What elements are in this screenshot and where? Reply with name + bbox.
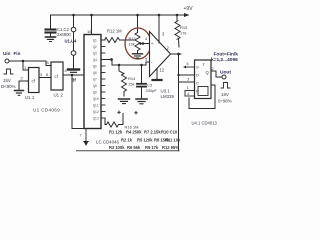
capacitor C1 C2 — [46, 15, 72, 37]
flip-flop U4.1 box — [195, 60, 214, 99]
node rail-ic — [90, 14, 93, 17]
svg-text:U1.1: U1.1 — [25, 95, 35, 100]
node output — [177, 53, 180, 56]
svg-text:R13: R13 — [129, 37, 136, 41]
svg-text:Q9: Q9 — [93, 91, 97, 95]
wire to FF pin D — [179, 74, 195, 76]
svg-text:R11 10k: R11 10k — [165, 138, 181, 143]
wire down to U1.1 pin1 — [23, 61, 29, 70]
wire rail to pot top — [137, 15, 139, 33]
pot wiper arrow — [138, 42, 143, 45]
wire opamp output — [171, 53, 182, 55]
inverter U1.2 — [46, 62, 68, 90]
resistor R16 oscillator — [105, 114, 139, 130]
svg-text:LM339: LM339 — [161, 94, 175, 99]
wire output to FF pins — [179, 54, 195, 151]
red highlight circle — [125, 28, 151, 59]
ground under R14 — [119, 99, 130, 104]
svg-text:D: D — [196, 73, 199, 78]
wire wiper to opamp plus — [143, 43, 150, 45]
label U1 CD4069 — [33, 108, 60, 113]
ground under C1C2 — [46, 37, 56, 42]
label U4.1 CD4013 — [192, 121, 218, 126]
table underline — [77, 150, 180, 152]
svg-text:15k: 15k — [128, 82, 134, 87]
svg-text:Q12: Q12 — [93, 110, 99, 114]
svg-text:R2 1k: R2 1k — [121, 138, 133, 143]
svg-text:0÷98%: 0÷98% — [218, 99, 232, 104]
node tap — [110, 58, 113, 61]
svg-text:Q8: Q8 — [93, 84, 97, 88]
inverter U1.1 — [21, 65, 44, 93]
svg-text:15V: 15V — [3, 78, 11, 83]
label U1.2 — [54, 93, 64, 98]
feedback wire Qbar to D — [189, 85, 215, 109]
svg-text:C: C — [196, 81, 199, 86]
ground under C3 — [136, 99, 147, 104]
parts table row3 — [109, 145, 179, 150]
svg-text:Q10: Q10 — [93, 97, 99, 101]
svg-text:330pF: 330pF — [146, 88, 158, 93]
svg-text:U4.1 CD4013: U4.1 CD4013 — [192, 121, 218, 126]
svg-text:Q1: Q1 — [93, 39, 97, 43]
counter IC U2 box — [84, 35, 101, 129]
svg-text:R15: R15 — [180, 25, 188, 30]
+9V supply arrow — [177, 6, 193, 17]
wire rail to counter pin 16 — [87, 15, 92, 35]
output terminal Uout — [220, 70, 231, 80]
svg-text:17k: 17k — [180, 31, 186, 36]
input terminal Uin Fin — [3, 51, 21, 63]
node clock-reset split — [71, 74, 74, 77]
svg-text:R14: R14 — [128, 76, 136, 81]
FF inner box — [198, 87, 208, 96]
wire U1.1 pin2 — [19, 81, 29, 90]
wire counter tap to minus bus — [101, 60, 150, 66]
power pins symbol U1,U4 — [65, 15, 78, 68]
wire to reset ground — [72, 75, 84, 129]
potentiometer R13 — [129, 33, 141, 54]
svg-text:3: 3 — [187, 78, 189, 82]
svg-text:+9V: +9V — [184, 6, 194, 12]
capacitor C3 — [137, 65, 157, 98]
node rail-opamp — [158, 14, 161, 17]
label R14 value — [128, 76, 136, 87]
svg-text:R12 95%: R12 95% — [162, 145, 179, 150]
node rail-cap — [72, 14, 75, 17]
svg-text:D<90%: D<90% — [1, 84, 16, 89]
svg-text:U1,U4: U1,U4 — [65, 39, 78, 44]
ground opamp — [153, 79, 162, 81]
svg-text:R9 17k: R9 17k — [145, 145, 159, 150]
svg-text:4: 4 — [187, 92, 189, 96]
node bus R14 — [118, 64, 121, 67]
svg-text:Uout: Uout — [220, 70, 231, 76]
FF pin S stub — [183, 62, 195, 68]
label U1.1 — [25, 95, 35, 100]
svg-text:10k: 10k — [129, 43, 135, 47]
node osc a — [118, 111, 121, 114]
node input split — [22, 60, 25, 63]
svg-text:C3: C3 — [147, 83, 153, 88]
svg-text:Q11: Q11 — [93, 104, 99, 108]
svg-text:R12 1M: R12 1M — [107, 29, 122, 34]
svg-text:Q3: Q3 — [93, 52, 97, 56]
svg-text:S: S — [196, 65, 199, 70]
parts table row1 — [109, 130, 178, 135]
resistor R12 horizontal — [101, 29, 134, 43]
wire U1.1 out to U1.2 in — [39, 77, 51, 79]
svg-text:Q4: Q4 — [93, 58, 97, 62]
svg-text:Q2: Q2 — [93, 45, 97, 49]
node FF d — [177, 74, 179, 76]
FF pin R stubs — [185, 86, 195, 96]
svg-text:U1 CD4069: U1 CD4069 — [33, 108, 60, 113]
node rail-pot — [136, 14, 139, 17]
svg-text:LC CD4046: LC CD4046 — [96, 140, 119, 145]
svg-text:R1 12k: R1 12k — [109, 130, 123, 135]
label Fout formula — [211, 52, 238, 64]
wire Q to output terminal — [211, 71, 222, 77]
wire U1.2 out to counter clock — [63, 71, 87, 83]
node wiper — [142, 42, 145, 45]
svg-text:Q13: Q13 — [93, 117, 99, 121]
svg-text:1: 1 — [187, 86, 189, 90]
resistor R15 pull-up — [175, 15, 188, 47]
input pulse glyph — [1, 69, 16, 89]
ground inside circle — [133, 54, 143, 58]
counter pin labels Q1-Q12 — [93, 39, 99, 121]
svg-text:12: 12 — [160, 68, 165, 73]
resistor R14 — [119, 65, 127, 96]
svg-text:U3.1: U3.1 — [161, 89, 171, 94]
ground under U1,U4 — [68, 70, 79, 73]
ground pin7 arrow — [80, 129, 89, 147]
wire input to gates — [9, 60, 51, 66]
counter pin stubs — [101, 40, 105, 118]
svg-text:Q7: Q7 — [93, 78, 97, 82]
svg-text:R7 2.15k: R7 2.15k — [144, 130, 161, 135]
svg-text:U1 2: U1 2 — [54, 93, 64, 98]
svg-text:R3 100k: R3 100k — [109, 145, 125, 150]
svg-text:R5 120k: R5 120k — [137, 138, 153, 143]
wire opamp gnd pin12 — [156, 69, 158, 80]
svg-text:R4 250k: R4 250k — [126, 130, 142, 135]
svg-text:R6 56k: R6 56k — [127, 145, 141, 150]
svg-text:Fout=Fin/k: Fout=Fin/k — [214, 52, 239, 58]
svg-text:Uin: Uin — [3, 51, 11, 56]
comparator U3.1 triangle — [145, 32, 171, 77]
svg-text:Q5: Q5 — [93, 65, 97, 69]
svg-text:+: + — [151, 41, 154, 46]
svg-text:18V: 18V — [221, 92, 229, 97]
svg-text:2x6800: 2x6800 — [57, 32, 71, 37]
svg-text:7: 7 — [80, 134, 82, 138]
wire +9V top rail — [51, 14, 184, 16]
parts table row2 — [121, 138, 181, 143]
output pulse glyph — [218, 83, 232, 104]
svg-text:R: R — [196, 89, 199, 94]
svg-text:Q6: Q6 — [93, 71, 97, 75]
svg-text:16: 16 — [87, 29, 92, 34]
ground at U1.1 pin2 — [15, 91, 24, 96]
wire rail to opamp vcc pin3 — [158, 15, 160, 43]
svg-text:2: 2 — [212, 67, 214, 71]
svg-text:3f: 3f — [72, 78, 76, 83]
svg-text:k=1,2...4096: k=1,2...4096 — [211, 57, 238, 63]
label U3.1 LM339 — [161, 89, 175, 100]
node osc b — [135, 112, 138, 115]
svg-text:6: 6 — [187, 62, 189, 66]
label LC CD4046 — [96, 140, 119, 145]
svg-text:R10 C10: R10 C10 — [161, 130, 178, 135]
svg-text:Fin: Fin — [14, 51, 21, 56]
node bus C3 — [140, 64, 143, 67]
node rail-R15 — [176, 14, 179, 17]
